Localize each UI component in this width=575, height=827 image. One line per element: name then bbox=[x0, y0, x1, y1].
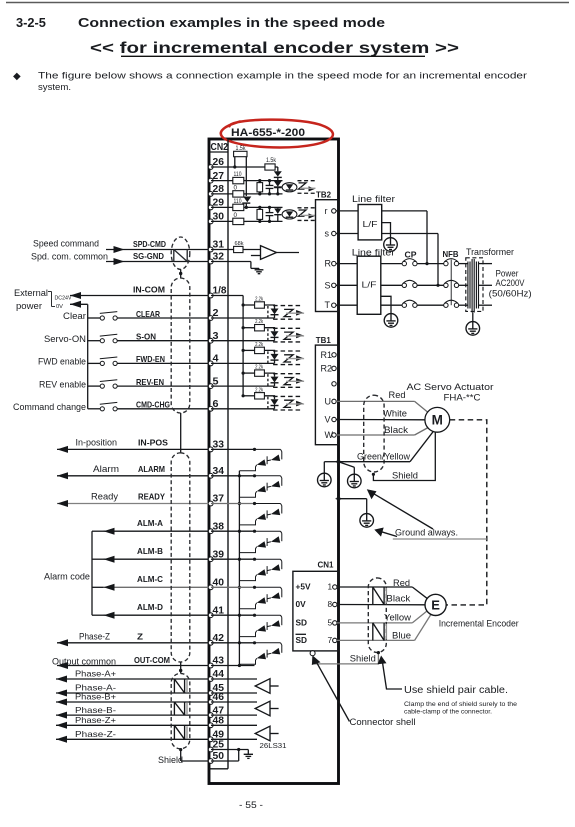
label Green/Yellow bbox=[357, 451, 410, 461]
terminal 0V pin 8 CN1 bbox=[296, 599, 337, 609]
label Black enc bbox=[386, 593, 410, 603]
encoder E bbox=[425, 594, 446, 615]
wire CMD-CHG to pin bbox=[117, 400, 208, 410]
svg-text:Line filter: Line filter bbox=[352, 248, 395, 258]
svg-text:SD: SD bbox=[296, 617, 308, 627]
svg-text:CMD-CHG: CMD-CHG bbox=[136, 400, 170, 410]
wires encoder pair 702/715.1 bbox=[211, 702, 257, 715]
filter network rails bbox=[247, 207, 283, 221]
terminal s TB2 bbox=[325, 229, 336, 239]
switch contact FWD enable bbox=[88, 357, 118, 366]
svg-text:Command change: Command change bbox=[13, 402, 86, 412]
optocoupler LED ellipse bbox=[282, 210, 297, 219]
input optocoupler row 340.7 bbox=[242, 319, 305, 342]
wire OUT-COM from pin 43 bbox=[57, 655, 209, 669]
label In-position bbox=[76, 437, 118, 447]
svg-text:Phase-B-: Phase-B- bbox=[75, 706, 116, 715]
twisted pair 1/8 bbox=[373, 587, 387, 605]
label Speed command bbox=[33, 239, 99, 249]
input optocoupler row 363.4 bbox=[242, 342, 305, 365]
wire Phase-B+ from pin bbox=[56, 699, 209, 706]
wire pin 50 shield join bbox=[211, 748, 240, 761]
label Black bbox=[384, 425, 408, 435]
svg-text:r: r bbox=[325, 206, 328, 216]
pin 32 of CN2 bbox=[208, 252, 224, 264]
callout arrow to cable bbox=[378, 656, 403, 690]
switch contact Command change bbox=[88, 402, 118, 411]
transformer T1 bbox=[466, 247, 514, 313]
svg-text:1: 1 bbox=[328, 582, 333, 592]
wire 0V to switch rail bbox=[70, 301, 88, 409]
wire IN-COM to pin 1/8 bbox=[70, 285, 209, 300]
NFB contact 305.2 bbox=[444, 300, 469, 307]
pin 26 of CN2 bbox=[208, 157, 224, 169]
svg-text:DC24V: DC24V bbox=[55, 295, 72, 301]
switch contact Servo-ON bbox=[88, 334, 118, 343]
wire pin 1/8 to bus bbox=[211, 296, 243, 396]
resistor vertical bbox=[257, 206, 263, 223]
terminal spare TB1 bbox=[332, 382, 336, 386]
svg-text:SD: SD bbox=[296, 635, 308, 645]
svg-text:26LS31: 26LS31 bbox=[260, 741, 287, 750]
svg-text:Blue: Blue bbox=[392, 630, 411, 640]
photocoupler output row 587.3 bbox=[239, 586, 281, 609]
ground transformer bbox=[466, 313, 480, 336]
svg-text:REV enable: REV enable bbox=[39, 379, 86, 389]
resistor 1.5k loop pin 26 bbox=[233, 146, 247, 196]
resistor 1.5k series pin 26 bbox=[265, 158, 278, 170]
wire +5V red bbox=[337, 587, 427, 598]
svg-text:AC Servo Actuator: AC Servo Actuator bbox=[407, 382, 494, 393]
svg-text:7: 7 bbox=[328, 635, 333, 645]
svg-text:Phase-Z-: Phase-Z- bbox=[75, 730, 116, 739]
shield link dot bbox=[179, 662, 182, 673]
svg-text:M: M bbox=[432, 413, 443, 428]
ground PE lower bbox=[339, 499, 374, 528]
svg-text:Phase-Z: Phase-Z bbox=[79, 631, 110, 641]
label HA-655-*-200 bbox=[231, 127, 305, 139]
NFB contact 285.3 bbox=[444, 280, 469, 287]
pin 38 of CN2 bbox=[208, 521, 224, 533]
zener diode bbox=[274, 207, 281, 221]
svg-text:Servo-ON: Servo-ON bbox=[44, 334, 86, 344]
terminal R TB2 bbox=[325, 259, 336, 269]
svg-text:SG-GND: SG-GND bbox=[133, 251, 164, 261]
resistor 0 pin wire bbox=[211, 213, 247, 225]
label FWD enable bbox=[38, 357, 86, 367]
op-amp U1 bbox=[261, 246, 300, 260]
callout connector shell bbox=[312, 656, 416, 728]
wire U red bbox=[336, 401, 428, 412]
pin 39 of CN2 bbox=[208, 549, 224, 561]
ground line filter 2 bbox=[381, 296, 398, 327]
svg-text:R1: R1 bbox=[321, 350, 333, 360]
svg-text:L/F: L/F bbox=[363, 219, 378, 229]
label Alarm bbox=[93, 464, 119, 474]
arrow to PE lower bbox=[374, 528, 397, 537]
svg-text:ALARM: ALARM bbox=[138, 464, 165, 474]
encoder cable oval bbox=[368, 578, 386, 653]
red hand-drawn circle bbox=[221, 120, 333, 148]
pin 45 of CN2 bbox=[208, 683, 224, 695]
encoder shield wire bbox=[313, 651, 380, 664]
wire pin 26 bbox=[211, 166, 265, 168]
wires R S T to line filter bbox=[336, 264, 357, 306]
terminal SD pin 5 CN1 bbox=[296, 617, 337, 627]
cable oval control inputs bbox=[171, 278, 190, 413]
svg-text:1.5k: 1.5k bbox=[236, 146, 247, 152]
photocoupler output row 642.8 bbox=[239, 641, 281, 664]
svg-text:1.5k: 1.5k bbox=[266, 158, 277, 164]
wires encoder pair 725.3/739.3 bbox=[211, 725, 257, 739]
wire input pin row 386.1 bbox=[211, 385, 275, 387]
wire S-ON to pin bbox=[117, 332, 208, 342]
wire output pin row 449.4 bbox=[211, 448, 255, 450]
capacitor bbox=[266, 179, 274, 195]
line driver triangle bbox=[255, 726, 278, 741]
svg-text:s: s bbox=[325, 229, 330, 239]
svg-text:V: V bbox=[325, 415, 331, 425]
pin 34 of CN2 bbox=[208, 466, 224, 478]
NFB contact 263.6 bbox=[444, 259, 469, 266]
terminal R2 TB1 bbox=[321, 363, 337, 373]
ground PE center bbox=[339, 462, 362, 488]
wire pin 32 to signal ground bbox=[211, 256, 263, 274]
photo arrows bbox=[298, 208, 316, 221]
svg-text:0V: 0V bbox=[296, 599, 307, 609]
diode chain pin 26 bbox=[274, 167, 282, 195]
svg-text:cable-clamp of the connector.: cable-clamp of the connector. bbox=[404, 709, 492, 716]
svg-text:Red: Red bbox=[393, 578, 410, 588]
pin 2 of CN2 bbox=[208, 308, 219, 320]
resistor vertical bbox=[257, 179, 263, 195]
pin 27 of CN2 bbox=[208, 171, 224, 183]
svg-text:L/F: L/F bbox=[362, 279, 377, 289]
svg-text:0V: 0V bbox=[56, 304, 63, 310]
svg-text:8: 8 bbox=[328, 599, 333, 609]
svg-text:power: power bbox=[16, 301, 42, 311]
CP contact 305.2 bbox=[381, 300, 444, 307]
svg-text:Incremental Encoder: Incremental Encoder bbox=[439, 618, 519, 629]
ground PE left bbox=[318, 462, 339, 487]
wire output pin row 587.3 bbox=[211, 586, 255, 588]
line driver triangle bbox=[255, 679, 278, 694]
resistor 110 pin wire bbox=[211, 199, 247, 211]
wire Phase-B- from pin bbox=[56, 712, 209, 719]
svg-text:Phase-A-: Phase-A- bbox=[75, 684, 116, 693]
svg-text:ALM-A: ALM-A bbox=[137, 518, 163, 528]
svg-text:(50/60Hz): (50/60Hz) bbox=[489, 289, 532, 299]
svg-text:ALM-B: ALM-B bbox=[137, 546, 163, 556]
input optocoupler row 318 bbox=[242, 297, 305, 320]
svg-text:OUT-COM: OUT-COM bbox=[134, 655, 170, 665]
shield link bbox=[180, 413, 182, 453]
switch contact REV enable bbox=[88, 380, 118, 389]
label White bbox=[383, 408, 407, 418]
label Incremental Encoder bbox=[439, 618, 519, 629]
svg-text:Phase-Z+: Phase-Z+ bbox=[75, 716, 116, 725]
cable oval outputs bbox=[171, 453, 190, 662]
svg-text:Green/Yellow: Green/Yellow bbox=[357, 451, 410, 461]
wire SPD-CMD to pin 31 bbox=[106, 239, 209, 253]
resistor 110 pin wire bbox=[211, 172, 247, 184]
pin 47 of CN2 bbox=[208, 705, 224, 717]
label Ground always bbox=[393, 527, 487, 539]
pin 31 of CN2 bbox=[208, 240, 224, 252]
svg-text:Alarm: Alarm bbox=[93, 464, 119, 474]
svg-text:Power: Power bbox=[496, 269, 519, 279]
label Spd. com. common bbox=[31, 251, 108, 261]
svg-text:Phase-B+: Phase-B+ bbox=[75, 693, 116, 702]
twisted pair phase Z bbox=[174, 725, 187, 739]
wire input pin row 340.7 bbox=[211, 340, 275, 342]
wire green/yellow bbox=[339, 432, 434, 462]
wire Phase-A- from pin bbox=[56, 690, 209, 697]
top scan edge line bbox=[6, 2, 569, 4]
wire Phase-Z- from pin bbox=[56, 736, 209, 743]
label Red bbox=[389, 390, 406, 400]
wire ALM-C from pin bbox=[104, 574, 209, 591]
label 26LS31 bbox=[260, 741, 287, 750]
svg-text:Black: Black bbox=[384, 425, 408, 435]
terminal W TB1 bbox=[325, 430, 337, 440]
bullet paragraph bbox=[13, 71, 528, 94]
wire r to line filter bbox=[336, 210, 358, 212]
svg-text:Shield: Shield bbox=[158, 755, 183, 765]
photo arrows bbox=[298, 181, 316, 194]
svg-text:External: External bbox=[14, 288, 48, 298]
svg-text:T: T bbox=[325, 300, 331, 310]
input optocoupler row 408.8 bbox=[242, 387, 305, 410]
pin 49 of CN2 bbox=[208, 730, 224, 742]
motor cable oval bbox=[364, 395, 384, 472]
pin 3 of CN2 bbox=[208, 331, 219, 343]
svg-text:R2: R2 bbox=[321, 363, 333, 373]
capacitor bbox=[266, 206, 274, 223]
photocoupler output row 475.8 bbox=[239, 474, 281, 497]
svg-text:CN1: CN1 bbox=[318, 560, 334, 570]
photocoupler output row 531.2 bbox=[239, 530, 281, 553]
diode to pin 29 bbox=[242, 197, 251, 209]
pin 41 of CN2 bbox=[208, 605, 224, 617]
label Ready bbox=[91, 492, 119, 502]
terminal S TB2 bbox=[325, 280, 336, 290]
pin 29 of CN2 bbox=[208, 198, 224, 210]
switch contact Clear bbox=[88, 312, 118, 321]
output common bus bbox=[238, 471, 241, 667]
label Phase-A- bbox=[75, 684, 116, 693]
wire input pin row 318 bbox=[211, 317, 275, 319]
pin 30 of CN2 bbox=[208, 212, 224, 224]
wire SG-GND to pin 32 bbox=[106, 251, 209, 265]
label Clear bbox=[63, 311, 86, 321]
svg-text:Clamp the end of shield surely: Clamp the end of shield surely to the bbox=[404, 701, 517, 708]
label Output common bbox=[52, 656, 116, 666]
wire output pin row 531.2 bbox=[211, 530, 255, 532]
svg-text:<< for incremental encoder sys: << for incremental encoder system >> bbox=[90, 40, 459, 57]
twisted pair phase A bbox=[174, 679, 187, 693]
line filter L/F main bbox=[352, 248, 395, 315]
wire s filter output bbox=[382, 234, 440, 287]
svg-text:TB2: TB2 bbox=[316, 189, 331, 199]
svg-text:110: 110 bbox=[234, 172, 243, 178]
wire ALM-B from pin bbox=[104, 546, 209, 563]
label External power bbox=[14, 288, 48, 311]
wire pin 25 to chassis ground bbox=[211, 750, 253, 759]
wire SD yellow bbox=[337, 611, 427, 623]
wire READY from pin bbox=[57, 492, 209, 508]
pin 6 of CN2 bbox=[208, 399, 219, 411]
wire ALM-A from pin bbox=[104, 518, 209, 535]
label Red enc bbox=[393, 578, 410, 588]
terminal R1 TB1 bbox=[321, 350, 337, 360]
svg-text:In-position: In-position bbox=[76, 437, 118, 447]
svg-text:IN-COM: IN-COM bbox=[133, 285, 165, 295]
label Phase-Z- bbox=[75, 730, 116, 739]
svg-text:system.: system. bbox=[38, 82, 71, 93]
resistor 68k bbox=[211, 241, 261, 253]
wire input pin row 408.8 bbox=[211, 408, 275, 410]
label Shield (left) bbox=[158, 755, 183, 765]
svg-text:Clear: Clear bbox=[63, 311, 86, 321]
svg-text:◆: ◆ bbox=[13, 71, 21, 82]
svg-text:Line filter: Line filter bbox=[352, 194, 395, 204]
svg-text:NFB: NFB bbox=[443, 249, 459, 259]
svg-text:ALM-D: ALM-D bbox=[137, 602, 163, 612]
pin 42 of CN2 bbox=[208, 633, 224, 645]
svg-text:68k: 68k bbox=[235, 241, 244, 247]
pin 46 of CN2 bbox=[208, 692, 224, 704]
section heading 3-2-5 bbox=[16, 15, 385, 30]
svg-text:Shield: Shield bbox=[350, 653, 376, 663]
svg-text:FWD enable: FWD enable bbox=[38, 357, 86, 367]
terminal U TB1 bbox=[325, 396, 337, 406]
pin 33 of CN2 bbox=[208, 440, 224, 452]
svg-text:- 55 -: - 55 - bbox=[239, 800, 263, 811]
label power source bbox=[489, 269, 532, 299]
terminal +5V pin 1 CN1 bbox=[296, 582, 337, 592]
svg-text:U: U bbox=[325, 396, 332, 406]
svg-text:+5V: +5V bbox=[296, 582, 311, 592]
svg-text:Z: Z bbox=[137, 631, 143, 641]
wire shield to pin 50 bbox=[179, 748, 208, 761]
footer page number bbox=[239, 800, 263, 811]
input optocoupler row 386.1 bbox=[242, 365, 305, 388]
terminal V TB1 bbox=[325, 415, 337, 425]
svg-text:Ground always.: Ground always. bbox=[395, 527, 458, 538]
line driver triangle bbox=[255, 701, 278, 716]
wire output pin row 615.2 bbox=[211, 614, 255, 616]
label REV enable bbox=[39, 379, 86, 389]
label Phase-B- bbox=[75, 706, 116, 715]
pin 28 of CN2 bbox=[208, 184, 224, 196]
pin 37 of CN2 bbox=[208, 494, 224, 506]
wire Phase-A+ from pin bbox=[56, 676, 209, 683]
filter network rails bbox=[247, 181, 283, 194]
shield junction dot bbox=[179, 269, 182, 278]
svg-text:TB1: TB1 bbox=[316, 335, 331, 345]
pin 44 of CN2 bbox=[208, 669, 224, 681]
svg-text:SPD-CMD: SPD-CMD bbox=[133, 239, 166, 249]
subtitle bbox=[90, 40, 459, 57]
svg-text:Spd. com. common: Spd. com. common bbox=[31, 251, 108, 261]
connector CN2 header bbox=[209, 142, 228, 153]
svg-text:IN-POS: IN-POS bbox=[138, 437, 168, 447]
svg-text:110: 110 bbox=[234, 199, 243, 205]
motor shield wire bbox=[372, 432, 436, 480]
label Phase-B+ bbox=[75, 693, 116, 702]
cable oval phase pairs bbox=[171, 673, 190, 748]
wire OUT-COM pin 43 bbox=[211, 665, 255, 667]
pin 50 of CN2 bbox=[208, 751, 224, 763]
connector shell lug bbox=[310, 651, 315, 656]
wire W black bbox=[336, 428, 428, 436]
svg-text:ALM-C: ALM-C bbox=[137, 574, 163, 584]
svg-text:R: R bbox=[325, 259, 332, 269]
label AC Servo Actuator bbox=[407, 382, 494, 404]
wire r filter output bbox=[382, 211, 429, 265]
svg-text:E: E bbox=[431, 598, 440, 613]
zener diode bbox=[274, 181, 281, 194]
label Phase-A+ bbox=[75, 670, 116, 679]
no-fuse breaker NFB bbox=[443, 249, 459, 305]
label Alarm code bbox=[44, 571, 90, 581]
svg-text:READY: READY bbox=[138, 492, 165, 502]
ground terminal dot 2 bbox=[336, 496, 342, 502]
pin 4 of CN2 bbox=[208, 354, 219, 366]
alarm code bracket bbox=[92, 531, 104, 615]
wire CLEAR to pin bbox=[117, 309, 208, 319]
svg-text:HA-655-*-200: HA-655-*-200 bbox=[231, 127, 305, 139]
svg-text:5: 5 bbox=[328, 617, 333, 627]
svg-text:S-ON: S-ON bbox=[136, 332, 156, 342]
svg-text:Connector shell: Connector shell bbox=[350, 717, 416, 728]
svg-text:CP: CP bbox=[405, 249, 417, 259]
photocoupler output row 615.2 bbox=[239, 614, 281, 637]
svg-text:Alarm code: Alarm code bbox=[44, 571, 90, 581]
circuit protector CP bbox=[405, 249, 417, 259]
svg-text:CLEAR: CLEAR bbox=[136, 309, 160, 319]
cable twisted pair 31/32 bbox=[171, 237, 190, 269]
callout use shield pair cable bbox=[404, 685, 517, 716]
wire REV-EN to pin bbox=[117, 377, 208, 387]
label Servo-ON bbox=[44, 334, 86, 344]
wires encoder pair 679/693 bbox=[211, 679, 257, 693]
svg-text:FWD-EN: FWD-EN bbox=[136, 354, 165, 364]
motor M bbox=[425, 407, 450, 432]
pin 40 of CN2 bbox=[208, 578, 224, 590]
label Yellow enc bbox=[384, 612, 411, 622]
optocoupler LED ellipse bbox=[282, 183, 297, 192]
svg-text:Speed command: Speed command bbox=[33, 239, 99, 249]
pin 5 of CN2 bbox=[208, 376, 219, 388]
terminal T TB2 bbox=[325, 300, 336, 310]
wire output pin row 642.8 bbox=[211, 642, 255, 644]
label Phase-Z bbox=[79, 631, 110, 641]
terminal r TB2 bbox=[325, 206, 336, 216]
pin 1/8 of CN2 bbox=[208, 286, 227, 298]
svg-text:S: S bbox=[325, 280, 331, 290]
wire Phase-Z+ from pin bbox=[56, 722, 209, 729]
wire IN-POS from pin bbox=[57, 437, 209, 453]
photocoupler output row 559.2 bbox=[239, 558, 281, 581]
pin 43 of CN2 bbox=[208, 656, 224, 668]
svg-text:Black: Black bbox=[386, 593, 410, 603]
label Command change bbox=[13, 402, 86, 412]
dashed actuator outline bbox=[446, 420, 487, 605]
svg-text:REV-EN: REV-EN bbox=[136, 377, 164, 387]
CN2 column separator bbox=[209, 139, 228, 769]
